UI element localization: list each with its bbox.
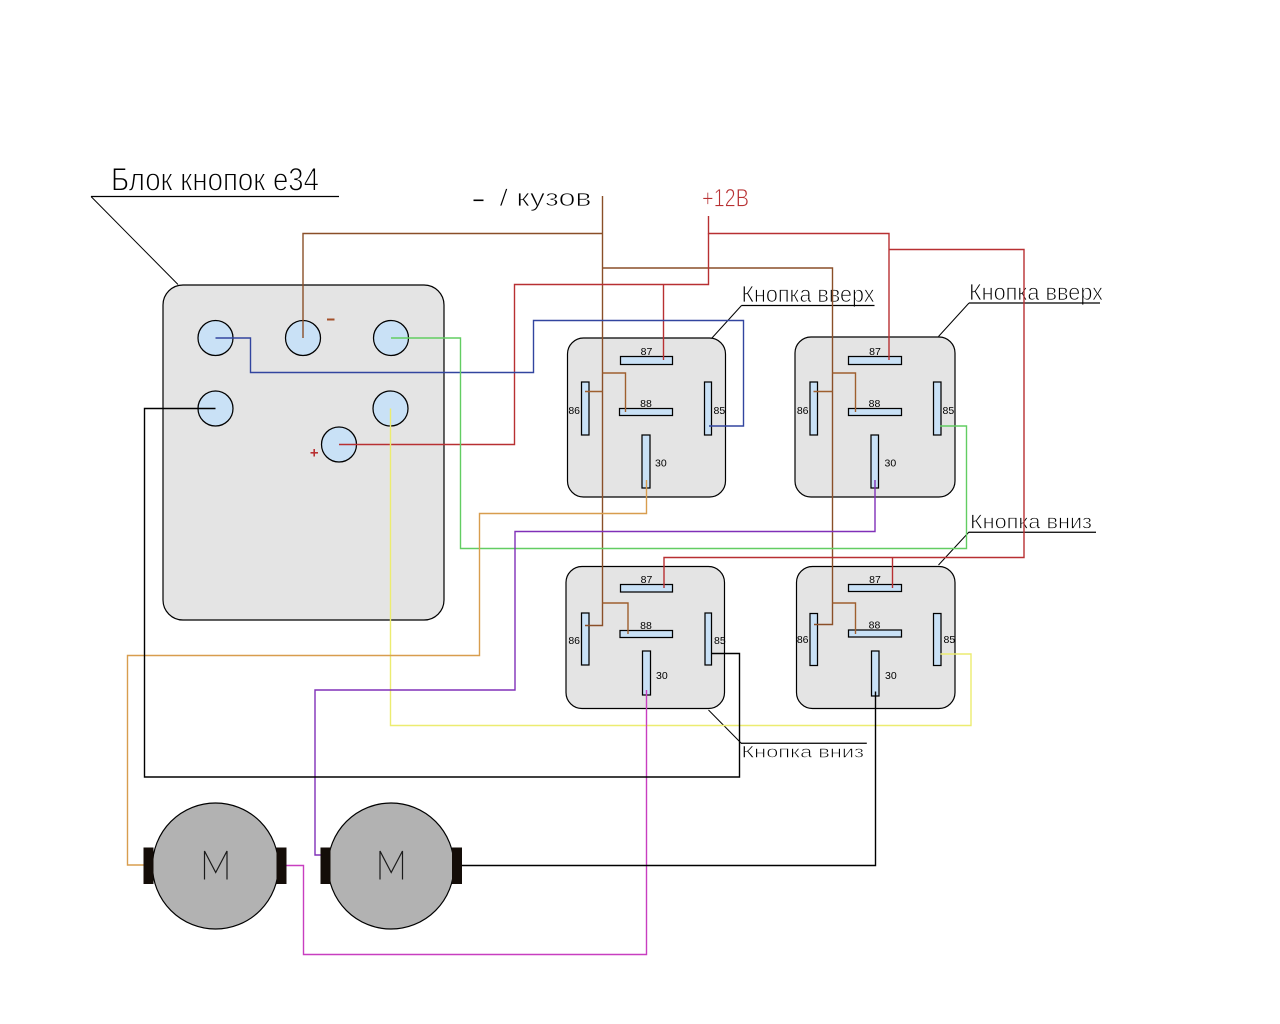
wire red +12V feed — [709, 216, 890, 360]
wire black motor M2 to K4 pin30 — [462, 692, 876, 866]
minus mark — [327, 319, 335, 321]
K4 pin 85 — [934, 614, 942, 666]
K1 pin 30 — [642, 435, 650, 488]
relay K4 — [797, 567, 956, 709]
button S1 — [198, 321, 233, 356]
svg-text:85: 85 — [714, 405, 726, 417]
wire brown bus vertical (- / кузов) — [585, 196, 603, 626]
K3 pin 88 — [620, 631, 673, 638]
K3 pin 85 — [705, 613, 712, 665]
M1 letter M — [205, 851, 228, 880]
relay K1 — [568, 338, 726, 497]
svg-text:88: 88 — [640, 398, 652, 410]
svg-text:30: 30 — [885, 670, 897, 682]
K3 pin 86 — [582, 613, 590, 665]
wire yellow S5 to K4 pin85 — [391, 409, 972, 726]
svg-text:Кнопка вниз: Кнопка вниз — [742, 743, 865, 762]
wire brown K4 pin88 branch — [833, 603, 856, 634]
button S2 — [286, 321, 321, 356]
wire black S4 to K3 pin85 — [145, 409, 740, 778]
label "Кнопка вверх" (relay K1) — [712, 281, 875, 339]
K4 pin 86 — [810, 614, 818, 666]
K4 pin 30 — [872, 651, 880, 696]
label "Блок кнопок е34" — [91, 162, 339, 198]
motor M2 — [321, 803, 463, 929]
svg-text:87: 87 — [641, 574, 653, 586]
svg-text:Блок кнопок е34: Блок кнопок е34 — [111, 162, 319, 198]
wire red down to button S6 — [339, 234, 709, 445]
svg-text:87: 87 — [641, 346, 653, 358]
svg-text:Кнопка вверх: Кнопка вверх — [969, 279, 1103, 305]
plus mark — [311, 449, 319, 457]
K2 pin 87 — [849, 357, 902, 365]
M2 right terminal — [452, 848, 462, 885]
K2 pin 88 — [849, 409, 902, 416]
svg-text:86: 86 — [797, 634, 809, 646]
M2 letter M — [380, 851, 403, 880]
label "Кнопка вверх" (relay K2) — [939, 279, 1104, 337]
wire brown K2 pin86 branch — [814, 391, 833, 393]
svg-text:30: 30 — [655, 458, 667, 470]
K1 pin 88 — [620, 409, 673, 416]
K3 pin 87 — [621, 585, 673, 593]
wire purple K2 pin30 to motor M2 — [315, 480, 875, 855]
button S6 — [322, 427, 357, 462]
svg-text:86: 86 — [568, 405, 580, 417]
K4 pin 87 — [849, 585, 902, 592]
svg-text:88: 88 — [640, 620, 652, 632]
wire brown K2 pin88 branch — [833, 373, 856, 412]
svg-text:88: 88 — [869, 398, 881, 410]
K2 pin 86 — [810, 382, 818, 435]
svg-text:87: 87 — [869, 574, 881, 586]
svg-text:Кнопка вниз: Кнопка вниз — [970, 512, 1092, 534]
wire magenta motor M1 to K3 pin30 — [287, 690, 647, 955]
label "Кнопка вниз" (relay K4) — [939, 512, 1097, 566]
button block U1 "Блок кнопок е34" — [163, 285, 444, 620]
relay K3 — [566, 567, 726, 709]
button S4 — [198, 391, 233, 426]
svg-text:87: 87 — [869, 346, 881, 358]
button S3 — [374, 321, 409, 356]
svg-text:85: 85 — [944, 634, 956, 646]
K1 pin 85 — [705, 382, 712, 435]
leader line to button block — [91, 197, 178, 285]
svg-text:85: 85 — [943, 405, 955, 417]
wire red branch K1 pin87 — [663, 285, 665, 361]
button S5 — [373, 391, 408, 426]
wire brown branch to button S2 — [303, 234, 603, 339]
wire red to right side — [664, 250, 1024, 589]
wire green S3 to K2 pin85 — [391, 338, 967, 549]
label "- / кузов" — [474, 199, 484, 201]
motor M1 — [144, 803, 287, 929]
K2 pin 85 — [934, 382, 942, 435]
svg-text:Кнопка вверх: Кнопка вверх — [742, 281, 875, 307]
K2 pin 30 — [871, 435, 879, 488]
M2 left terminal — [321, 848, 331, 885]
K1 pin 86 — [582, 382, 590, 435]
M1 right terminal — [277, 848, 287, 885]
wire brown K1 pin86 branch — [585, 391, 603, 393]
svg-text:/ кузов: / кузов — [500, 185, 592, 212]
wire brown K1 pin88 branch — [603, 373, 626, 412]
wire red branch K4 pin87 — [892, 558, 894, 589]
wire orange K1 pin30 to motor M1 — [128, 480, 647, 865]
relay K2 — [795, 337, 955, 497]
svg-text:+12В: +12В — [702, 185, 749, 213]
svg-text:30: 30 — [885, 458, 897, 470]
K4 pin 88 — [849, 630, 902, 637]
svg-text:86: 86 — [797, 405, 809, 417]
K1 pin 87 — [621, 357, 673, 365]
svg-text:88: 88 — [869, 620, 881, 632]
svg-text:30: 30 — [656, 670, 668, 682]
svg-text:85: 85 — [714, 635, 726, 647]
wire brown K3 pin88 branch — [603, 603, 629, 634]
label "Кнопка вниз" (relay K3) — [709, 710, 867, 762]
M1 left terminal — [144, 848, 154, 885]
K3 pin 30 — [643, 651, 651, 695]
svg-text:86: 86 — [568, 635, 580, 647]
wire brown branch right to relays K2 K4 — [603, 268, 833, 625]
wire blue S1 to K1 pin85 — [216, 321, 744, 427]
